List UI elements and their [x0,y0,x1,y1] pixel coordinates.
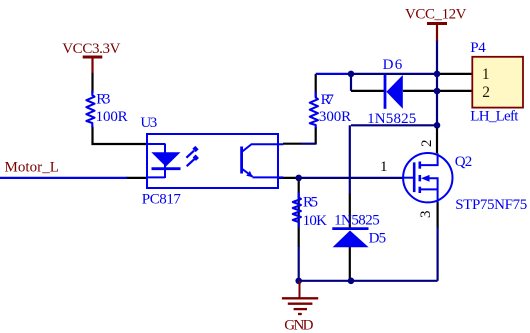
svg-text:GND: GND [284,317,313,333]
svg-text:P4: P4 [470,40,486,56]
svg-text:1: 1 [482,66,490,83]
svg-text:R5: R5 [303,195,318,211]
svg-text:1N5825: 1N5825 [334,213,380,229]
svg-text:VCC3.3V: VCC3.3V [62,41,120,57]
svg-text:Motor_L: Motor_L [5,160,59,176]
svg-text:STP75NF75: STP75NF75 [455,197,527,213]
svg-text:D6: D6 [383,57,403,73]
svg-text:1: 1 [380,159,388,175]
svg-text:D5: D5 [369,231,387,247]
svg-text:2: 2 [419,140,435,148]
svg-text:PC817: PC817 [142,192,182,208]
svg-text:R7: R7 [321,92,335,108]
svg-text:U3: U3 [140,115,157,131]
svg-text:100R: 100R [96,109,128,125]
svg-text:LH_Left: LH_Left [470,108,519,124]
svg-text:10K: 10K [303,213,328,229]
svg-text:2: 2 [482,84,490,101]
svg-text:300R: 300R [319,109,351,125]
svg-text:3: 3 [418,211,434,219]
svg-text:R3: R3 [96,92,110,108]
svg-text:VCC_12V: VCC_12V [405,7,467,23]
svg-text:Q2: Q2 [455,154,473,170]
svg-text:1N5825: 1N5825 [367,111,416,127]
